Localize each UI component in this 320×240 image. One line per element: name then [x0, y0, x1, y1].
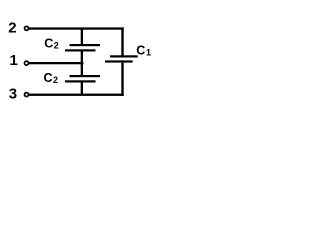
svg-text:1: 1 [10, 52, 18, 69]
capacitor C1: bottom lead wire [121, 63, 123, 96]
svg-text:C: C [44, 37, 53, 51]
capacitor C2 upper: plates [65, 44, 100, 52]
svg-text:2: 2 [53, 75, 58, 85]
label C2 (upper) [44, 37, 59, 51]
capacitor C2 upper: top lead wire [81, 28, 83, 44]
terminal 3 [25, 93, 29, 97]
capacitor C2 lower: bottom lead wire [81, 83, 83, 96]
terminal 1 [25, 61, 29, 65]
label C1 [136, 44, 151, 58]
label C2 (lower) [44, 71, 59, 85]
node 3 (terminal label) [9, 85, 17, 102]
wire: C2 upper bottom plate to C2 lower top plate (junction with terminal 1 wire) [81, 52, 83, 76]
terminal 2 [25, 26, 29, 30]
svg-text:2: 2 [8, 19, 16, 36]
node 2 (terminal label) [8, 19, 16, 36]
svg-text:1: 1 [146, 48, 151, 58]
capacitor C1: plates [105, 55, 138, 62]
capacitor C1: top lead wire [121, 27, 123, 55]
wire: terminal 1 to C2 midpoint junction [29, 62, 84, 64]
capacitor C2 lower: plates [65, 75, 100, 83]
node 1 (terminal label) [10, 52, 18, 69]
wire: terminal 3 to C1 bottom (bottom rail) [29, 94, 124, 96]
svg-text:2: 2 [54, 41, 59, 51]
svg-text:C: C [44, 71, 53, 85]
wire: terminal 2 to C1 top (top rail) [29, 27, 124, 29]
svg-text:3: 3 [9, 85, 17, 102]
